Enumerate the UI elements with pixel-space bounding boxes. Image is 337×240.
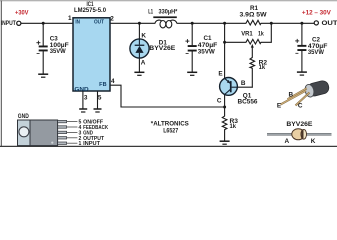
svg-text:K: K — [311, 138, 316, 145]
svg-text:5: 5 — [98, 94, 102, 101]
svg-text:4: 4 — [111, 78, 115, 85]
svg-text:OUT: OUT — [322, 20, 337, 27]
svg-text:E: E — [218, 71, 223, 78]
svg-text:LM2575-5.0: LM2575-5.0 — [74, 7, 106, 14]
svg-text:B: B — [241, 80, 246, 87]
svg-text:*ALTRONICS: *ALTRONICS — [151, 120, 190, 127]
svg-text:C1: C1 — [204, 35, 212, 42]
svg-text:B: B — [288, 91, 293, 98]
svg-text:35VW: 35VW — [308, 49, 325, 56]
svg-text:1: 1 — [68, 15, 72, 22]
svg-text:3.9Ω 5W: 3.9Ω 5W — [240, 11, 268, 18]
svg-text:+12 – 30V: +12 – 30V — [302, 9, 332, 16]
svg-text:+30V: +30V — [15, 9, 29, 16]
svg-text:OUT: OUT — [94, 20, 105, 26]
svg-text:L1: L1 — [148, 9, 153, 16]
svg-text:1k: 1k — [230, 123, 237, 130]
svg-text:1k: 1k — [258, 31, 264, 38]
svg-text:35VW: 35VW — [198, 48, 216, 55]
svg-text:1: 1 — [79, 141, 82, 147]
svg-text:BYV26E: BYV26E — [286, 121, 313, 128]
svg-text:K: K — [141, 33, 146, 40]
svg-text:L6527: L6527 — [163, 127, 178, 134]
svg-text:INPUT: INPUT — [1, 20, 16, 27]
svg-text:GND: GND — [74, 87, 88, 93]
svg-text:E: E — [277, 103, 282, 110]
svg-text:INPUT: INPUT — [83, 141, 101, 147]
svg-text:C: C — [217, 97, 222, 104]
svg-text:GND: GND — [18, 113, 29, 120]
svg-text:35VW: 35VW — [50, 48, 67, 55]
svg-text:1k: 1k — [259, 64, 266, 71]
svg-text:FB: FB — [99, 82, 107, 88]
svg-text:A: A — [284, 138, 289, 145]
svg-text:2: 2 — [110, 15, 114, 22]
svg-text:BC556: BC556 — [238, 98, 258, 105]
svg-text:3: 3 — [84, 94, 88, 101]
svg-text:A: A — [141, 60, 146, 67]
svg-text:IN: IN — [75, 20, 80, 26]
svg-text:C: C — [298, 103, 303, 110]
svg-text:BYV26E: BYV26E — [149, 45, 176, 52]
svg-text:330µH*: 330µH* — [159, 9, 178, 16]
svg-text:VR1: VR1 — [241, 31, 253, 38]
